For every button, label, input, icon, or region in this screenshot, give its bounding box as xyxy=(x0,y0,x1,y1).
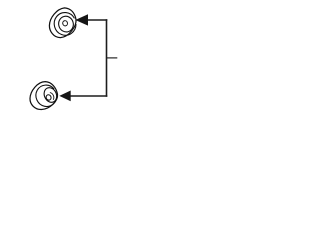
arrow bottom xyxy=(59,91,70,102)
knob2 body silhouette xyxy=(30,82,58,110)
knob2 shell rim arc xyxy=(32,82,59,110)
wire bottom horizontal xyxy=(70,95,107,97)
speaker knob bottom xyxy=(30,82,60,110)
speaker knob top xyxy=(49,8,78,38)
arrow top xyxy=(75,14,88,25)
knob2 inner swirl arc xyxy=(50,92,55,100)
knob2 face oval xyxy=(42,86,59,105)
wire vertical xyxy=(106,19,108,97)
knob2 center hole xyxy=(45,94,52,101)
wire top horizontal xyxy=(88,19,108,21)
tick mark xyxy=(107,57,118,59)
